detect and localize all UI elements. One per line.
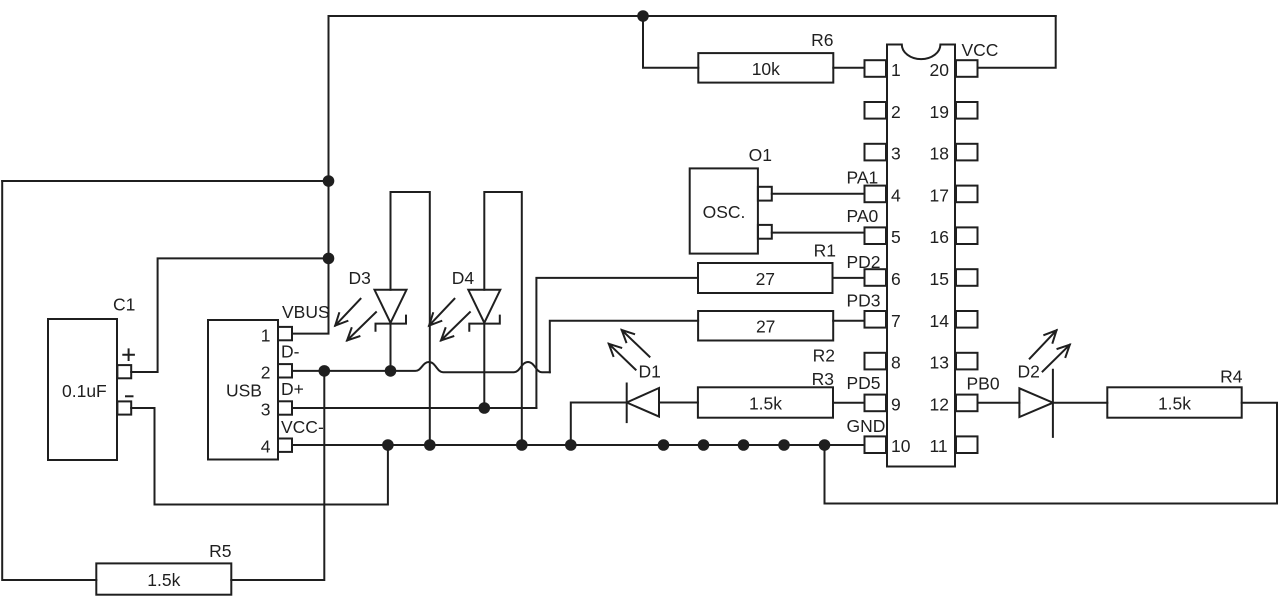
U1 pin 7 box	[865, 311, 887, 328]
junction D4 D+	[479, 402, 491, 414]
C1 plus terminal box	[117, 365, 131, 378]
junction C1 minus GND	[382, 439, 394, 451]
U1 pin 12 box	[956, 395, 978, 412]
resistor R5	[96, 563, 231, 594]
svg-text:16: 16	[930, 227, 949, 247]
svg-text:0.1uF: 0.1uF	[62, 381, 107, 401]
svg-text:2: 2	[261, 363, 271, 383]
svg-text:O1: O1	[749, 145, 772, 165]
C1 minus sign	[126, 395, 133, 397]
svg-text:12: 12	[930, 394, 949, 414]
svg-text:PB0: PB0	[967, 374, 1000, 394]
svg-text:3: 3	[261, 400, 271, 420]
junction GND a	[658, 439, 670, 451]
wire D1 cathode to GND	[571, 403, 627, 446]
svg-text:4: 4	[261, 437, 271, 457]
junction GND d	[778, 439, 790, 451]
svg-text:1.5k: 1.5k	[749, 393, 782, 413]
U1 pin 16 box	[956, 227, 978, 244]
wire R6 to pin 1	[833, 67, 864, 69]
svg-text:9: 9	[891, 394, 901, 414]
zener diode D3	[375, 290, 407, 331]
U1 pin 3 box	[865, 144, 887, 161]
wire O1 to pin 4	[772, 193, 865, 195]
IC U1 DIP-20 body	[887, 45, 955, 467]
svg-text:PA1: PA1	[847, 168, 879, 188]
svg-text:PD5: PD5	[847, 373, 881, 393]
junction GND b	[698, 439, 710, 451]
junction D4 loop GND	[516, 439, 528, 451]
LED D1	[627, 384, 659, 423]
U1 pin 20 box	[956, 60, 978, 77]
D2 arrow 1	[1030, 330, 1057, 358]
svg-text:2: 2	[891, 102, 901, 122]
wire left rail horizontal	[2, 180, 328, 182]
U1 pin 15 box	[956, 269, 978, 286]
capacitor C1	[48, 319, 117, 460]
wire C1 minus to GND	[131, 408, 388, 505]
oscillator O1	[690, 168, 758, 253]
svg-text:R6: R6	[811, 30, 833, 50]
wire D+ line	[292, 407, 536, 409]
USB pin 1 box	[278, 327, 292, 340]
svg-text:VBUS: VBUS	[282, 302, 330, 322]
wire D4 cathode loop to GND	[484, 192, 522, 445]
svg-text:3: 3	[891, 144, 901, 164]
svg-text:C1: C1	[113, 295, 135, 315]
wire D3 cathode loop to GND	[391, 192, 430, 445]
U1 pin 19 box	[956, 102, 978, 119]
resistor R3	[698, 387, 833, 417]
wire VCC top rail	[329, 15, 1056, 17]
junction left rail VBUS	[323, 175, 335, 187]
svg-text:13: 13	[930, 353, 949, 373]
svg-text:7: 7	[891, 311, 901, 331]
D3 arrow 1	[335, 299, 360, 326]
svg-text:PD3: PD3	[847, 290, 881, 310]
wire D2 to R4	[1053, 402, 1107, 404]
svg-text:OSC.: OSC.	[703, 202, 746, 222]
USB pin 4 box	[278, 439, 292, 452]
svg-text:D4: D4	[452, 268, 475, 288]
zener diode D4	[468, 290, 500, 331]
svg-text:8: 8	[891, 353, 901, 373]
junction top rail R6	[637, 10, 649, 22]
wire R1 to pin 6	[833, 277, 865, 279]
LED D2	[1019, 370, 1053, 437]
wire D- riser to R2	[550, 321, 698, 373]
wire D3 anode to D-	[390, 324, 392, 371]
O1 pin a box	[758, 187, 772, 201]
svg-text:10: 10	[891, 436, 911, 456]
U1 pin 13 box	[956, 353, 978, 370]
wire left rail vertical	[2, 181, 96, 580]
junction R5 D-	[319, 365, 331, 377]
O1 pin b box	[758, 225, 772, 239]
U1 pin 11 box	[956, 436, 978, 453]
USB pin 3 box	[278, 401, 292, 414]
U1 pin 10 box	[865, 436, 887, 453]
svg-text:27: 27	[756, 316, 775, 336]
resistor R6	[698, 53, 833, 83]
svg-text:17: 17	[930, 185, 949, 205]
junction D3 D-	[385, 365, 397, 377]
svg-text:4: 4	[891, 185, 901, 205]
wire R4 return to GND	[825, 403, 1278, 504]
D1 arrow 1	[609, 344, 636, 370]
svg-text:R2: R2	[813, 346, 835, 366]
svg-text:5: 5	[891, 227, 901, 247]
wire R2 to pin 7	[833, 320, 864, 322]
svg-text:14: 14	[930, 311, 950, 331]
wire VCC rail to pin 20	[978, 16, 1056, 68]
U1 pin 8 box	[865, 353, 887, 370]
junction R4 return GND	[819, 439, 831, 451]
svg-text:R5: R5	[209, 541, 231, 561]
svg-text:GND: GND	[847, 416, 886, 436]
svg-text:VCC: VCC	[962, 40, 999, 60]
svg-text:1: 1	[261, 326, 271, 346]
wire O1 to pin 5	[772, 232, 865, 234]
svg-text:PD2: PD2	[847, 252, 881, 272]
junction D1 GND	[565, 439, 577, 451]
svg-text:R1: R1	[814, 241, 836, 261]
U1 pin 6 box	[865, 269, 887, 286]
U1 pin 14 box	[956, 311, 978, 328]
svg-text:1: 1	[891, 60, 901, 80]
svg-text:D2: D2	[1018, 361, 1040, 381]
wire VBUS riser	[292, 16, 329, 334]
U1 pin 2 box	[865, 102, 887, 119]
wire C1 plus to VBUS rail	[131, 258, 328, 372]
U1 pin 9 box	[865, 395, 887, 412]
U1 pin 1 box	[865, 60, 887, 77]
svg-text:USB: USB	[226, 381, 262, 401]
D2 arrow 2	[1043, 345, 1070, 372]
wire top rail to R6	[643, 16, 698, 68]
wire D+ riser to R1	[536, 278, 698, 408]
C1 minus terminal box	[117, 401, 131, 414]
D1 arrow 2	[622, 330, 650, 357]
D4 arrow 1	[429, 299, 454, 326]
D3 arrow 2	[347, 312, 376, 340]
resistor R2	[698, 311, 833, 341]
svg-text:D3: D3	[349, 268, 371, 288]
U1 pin 17 box	[956, 186, 978, 203]
wire D1 anode to R3	[659, 402, 698, 404]
U1 pin 18 box	[956, 144, 978, 161]
svg-text:D1: D1	[639, 362, 661, 382]
svg-text:1.5k: 1.5k	[1158, 393, 1191, 413]
U1 pin 5 box	[865, 227, 887, 244]
svg-text:R3: R3	[812, 369, 834, 389]
svg-text:R4: R4	[1220, 367, 1243, 387]
USB pin 2 box	[278, 364, 292, 377]
D4 arrow 2	[441, 312, 470, 340]
wire R3 to pin 9	[833, 402, 865, 404]
svg-text:27: 27	[756, 269, 775, 289]
USB connector body	[208, 320, 278, 460]
svg-text:D-: D-	[281, 342, 300, 362]
junction C1 plus VBUS	[323, 253, 335, 265]
U1 pin 4 box	[865, 186, 887, 203]
wire GND line	[292, 444, 865, 446]
svg-text:VCC-: VCC-	[281, 417, 324, 437]
junction D3 loop GND	[424, 439, 436, 451]
resistor R1	[698, 263, 833, 293]
svg-text:19: 19	[930, 102, 949, 122]
svg-text:18: 18	[930, 144, 949, 164]
resistor R4	[1107, 387, 1241, 417]
svg-text:1.5k: 1.5k	[147, 570, 180, 590]
svg-text:11: 11	[930, 436, 948, 456]
wire R5 to D- riser	[231, 371, 324, 580]
svg-text:D+: D+	[281, 379, 304, 399]
C1 plus sign	[123, 349, 134, 360]
wire D- line with hops	[292, 362, 550, 372]
svg-text:PA0: PA0	[847, 206, 879, 226]
svg-text:10k: 10k	[752, 59, 780, 79]
svg-text:15: 15	[930, 269, 949, 289]
wire D4 anode to D+	[483, 324, 485, 408]
wire pin 12 to D2	[978, 402, 1020, 404]
svg-text:20: 20	[930, 60, 950, 80]
svg-text:6: 6	[891, 269, 901, 289]
junction GND c	[738, 439, 750, 451]
